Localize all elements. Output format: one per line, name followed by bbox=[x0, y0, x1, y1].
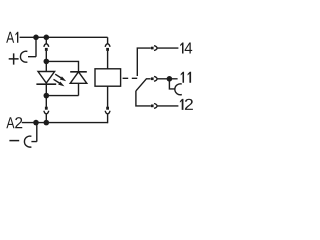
plug-in contact pin (A2 branch) bbox=[45, 107, 48, 110]
wire contact 14 branch bbox=[137, 48, 151, 76]
terminal label 12 bbox=[180, 99, 193, 110]
plug-in contact pin (12) bbox=[151, 105, 154, 108]
plug-in contact pin (11) bbox=[151, 77, 154, 80]
junction dot LED rail bottom bbox=[44, 93, 50, 99]
plug-in contact socket (coil top) bbox=[105, 44, 110, 47]
junction dot on A2 line (right) bbox=[44, 120, 50, 126]
plug-in contact socket (11) bbox=[154, 76, 178, 81]
plug-in contact socket (A2 branch) bbox=[44, 111, 49, 123]
junction dot LED rail top bbox=[44, 59, 50, 65]
plug-in contact pin (coil bottom) bbox=[106, 107, 109, 110]
LED cathode bar bbox=[36, 83, 56, 85]
wire pin to coil bbox=[107, 51, 109, 69]
wire LED to bottom rail bbox=[45, 84, 47, 95]
plus sign bbox=[9, 53, 19, 64]
wire pin to LED rail bbox=[45, 51, 47, 62]
junction dot on A2 line (left) bbox=[33, 120, 39, 126]
plug-in contact socket (12) bbox=[154, 104, 178, 109]
cage clamp terminal 11 bbox=[175, 84, 182, 95]
plug-in contact pin (14) bbox=[151, 47, 154, 50]
terminal label A2 bbox=[6, 117, 22, 128]
terminal label 14 bbox=[180, 42, 192, 53]
cage clamp terminal A1 bbox=[20, 51, 27, 62]
terminal label A1 bbox=[6, 32, 18, 43]
plug-in contact socket (14) bbox=[154, 46, 178, 51]
wire A1 line down to coil bbox=[107, 37, 109, 43]
LED D1 triangle bbox=[38, 72, 55, 84]
wire coil bottom to pin bbox=[107, 86, 109, 107]
plug-in contact socket (coil bottom) bbox=[105, 111, 110, 123]
wire 11 to clamp bbox=[169, 79, 175, 89]
junction dot on A1 line (right) bbox=[44, 35, 50, 41]
cage clamp terminal A2 bbox=[24, 136, 31, 147]
wire A2 horizontal bbox=[22, 122, 108, 124]
LED emission arrow 2 bbox=[54, 79, 65, 86]
wire rail to pin (A2 branch) bbox=[45, 96, 47, 107]
contact arm (NC position) bbox=[136, 79, 151, 91]
wire A1 horizontal bbox=[20, 36, 108, 38]
junction dot on A1 line (left) bbox=[33, 35, 39, 41]
minus sign bbox=[9, 140, 19, 142]
wire LED bottom rail bbox=[46, 95, 78, 97]
wire contact 12 branch bbox=[136, 91, 151, 106]
freewheel diode triangle bbox=[70, 72, 87, 84]
relay coil K1 bbox=[95, 69, 121, 86]
dashed actuator link bbox=[123, 77, 138, 79]
plug-in contact pin (A1 branch) bbox=[45, 48, 48, 51]
wire LED top rail bbox=[46, 61, 78, 71]
plug-in contact pin (coil top) bbox=[106, 48, 109, 51]
wire into LED bbox=[45, 61, 47, 71]
junction dot on 11 line bbox=[167, 76, 173, 82]
wire diode to bottom rail bbox=[78, 83, 80, 95]
freewheel diode cathode bar bbox=[70, 71, 87, 73]
plug-in contact socket (A1 branch) bbox=[44, 40, 49, 47]
terminal label 11 bbox=[181, 72, 191, 83]
LED emission arrow 1 bbox=[55, 74, 66, 81]
wire clamp A2 to node bbox=[31, 123, 36, 142]
wire clamp A1 to node bbox=[28, 37, 36, 56]
